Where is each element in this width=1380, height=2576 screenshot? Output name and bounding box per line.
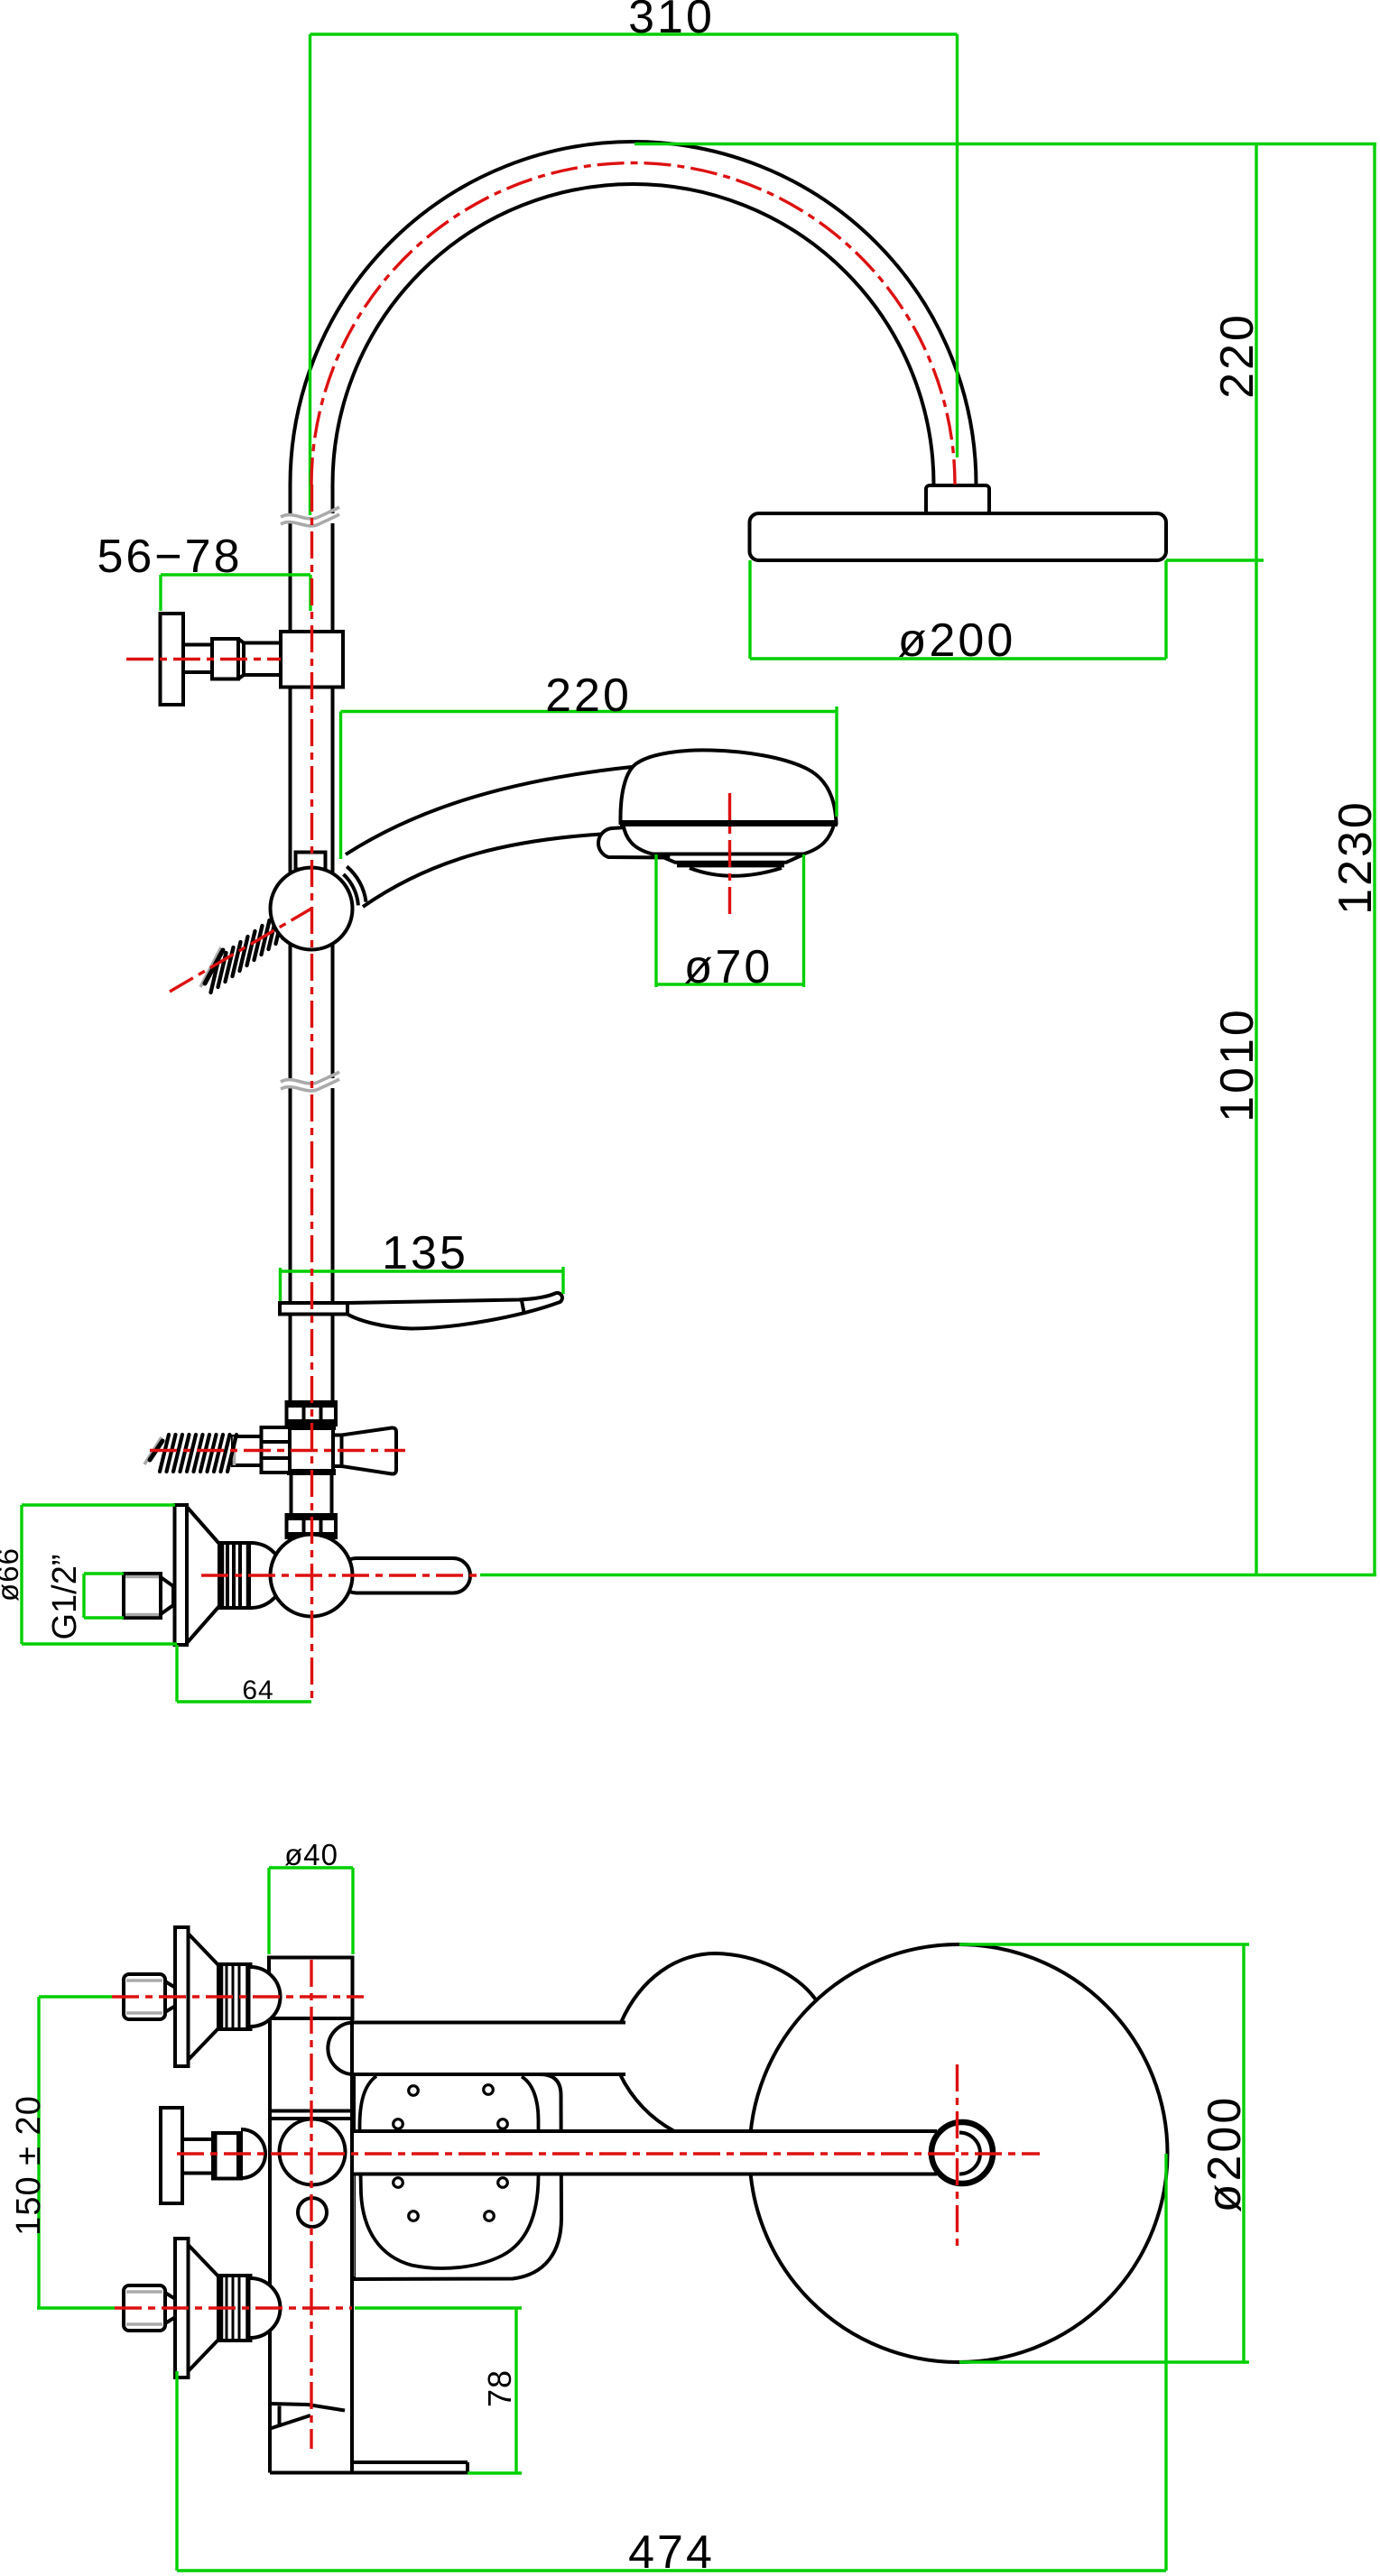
rain shower head disc (front) [750,513,1167,560]
diverter hex collar [262,1427,291,1473]
svg-text:G1/2”: G1/2” [46,1554,84,1639]
svg-text:310: 310 [628,0,715,43]
dim 220 handshower [341,706,838,859]
centerline: mixer axis [201,1574,480,1576]
handshower head flow tab [598,827,672,858]
svg-text:1230: 1230 [1329,799,1380,915]
centerline: plan column vertical [310,1960,312,2449]
dim 310 [310,34,958,515]
top reference line (arc top) [634,143,1376,145]
dim o40 plan [269,1868,353,1954]
centerline: wall bracket axis [126,658,281,660]
soap dish tray (front view) [347,1293,562,1329]
centerline: handshower head axis [728,793,731,917]
mixer ball body [271,1535,353,1617]
soap dish bracket (front view) [280,1303,347,1315]
plan: middle valve ball [280,2119,346,2185]
svg-text:474: 474 [628,2526,715,2576]
centerline: plan lower fitting [115,2306,352,2309]
plan: grey hidden edge at body [351,2174,355,2276]
plan: soap dish outer outline [354,2074,561,2279]
mixer wall escutcheon plate [175,1505,188,1645]
centerline: riser pipe vertical [310,485,313,1702]
pipe break symbol (upper wavy break) [281,507,339,526]
handshower grip (curved handle) [346,767,632,907]
centerline: gooseneck arc [311,162,955,485]
svg-text:135: 135 [382,1227,468,1279]
diverter handle stem and cone [333,1427,396,1473]
dim 1230 [1373,144,1375,1575]
svg-text:56−78: 56−78 [97,531,242,583]
plan: mixer spout bar [352,2462,468,2473]
plan: shower arm bar [352,2131,959,2174]
mixer dome [251,1543,283,1608]
dim 56-78 [161,575,310,611]
centerline: diverter axis [150,1449,405,1452]
hose break mark (grey) [200,947,223,987]
plan: rain head circle (d200) [750,1944,1168,2362]
dim 474 [177,2154,1166,2571]
plan: middle valve cross handle [161,2108,265,2203]
plan: wall bar column [269,1958,468,2473]
handshower ball joint [271,868,353,950]
mixer escutcheon cone [187,1507,219,1643]
dim o200 front [750,560,1166,659]
wall bracket flange plate (56-78 wall union) [161,614,184,705]
dim 220 vertical (head drop) [1166,144,1264,561]
plan: soap dish drain holes [394,2085,508,2221]
handshower holder clamp [296,853,326,870]
mixer threaded collar [219,1543,251,1608]
plan: arm end cap arc [959,2133,980,2174]
dim 150 +- 20 [37,1997,115,2308]
dim 78 plan [355,2308,522,2473]
plan: arm end hook circle [931,2122,993,2184]
pipe break symbol (lower wavy break) [281,1072,339,1091]
dim o70 [656,854,805,987]
svg-text:ø200: ø200 [898,614,1016,667]
riser pipe (vertical shower column) [291,485,333,1400]
mixer lever handle [339,1558,470,1593]
plan: lower wall union fitting [124,2239,281,2377]
handshower ferrule arcs [344,866,366,905]
plan: soap dish inner basin [360,2076,539,2268]
svg-text:ø70: ø70 [684,941,773,993]
diverter hose nipple [233,1436,262,1465]
handshower face rings [657,854,804,876]
diverter valve body [287,1426,336,1473]
dim o200 plan [959,1944,1249,2362]
svg-text:220: 220 [1211,312,1264,399]
diverter hose break mark [144,1437,162,1464]
svg-text:150 ± 20: 150 ± 20 [10,2095,48,2236]
bottom reference line (mixer axis) [480,1574,1376,1576]
svg-text:ø40: ø40 [284,1838,338,1871]
handshower head parting line [620,820,838,826]
plan: upper wall union fitting [124,1927,281,2066]
shower head top connector (front) [926,485,989,514]
centerline: plan head circle vertical [956,2064,959,2248]
svg-text:ø66: ø66 [0,1547,24,1602]
svg-text:78: 78 [481,2369,518,2407]
pipe slider block of wall bracket [281,632,343,688]
svg-text:64: 64 [242,1676,273,1705]
dim 135 [281,1267,564,1301]
centerline: handshower hose axis [170,909,311,992]
diverter upper union nut [285,1402,337,1425]
dim o66 [22,1505,177,1644]
centerline: plan upper fitting [112,1995,364,1998]
diverter lower union nut [285,1515,337,1537]
dim G1/2 [84,1574,124,1618]
svg-text:1010: 1010 [1211,1007,1264,1122]
dim 64 [177,1645,311,1702]
pipe segment below diverter body [292,1473,332,1515]
handshower head body [620,750,836,823]
gooseneck arc (curved shower arm tube) [291,142,977,485]
mixer G1/2 inlet nipple [124,1574,173,1618]
plan: handshower grip bar (stadium) [328,2023,625,2075]
centerline: plan middle valve axis [177,2152,1040,2155]
wall bracket chamfer neck [238,639,281,679]
diverter hose coil [160,1435,236,1472]
dim 1010 [1255,560,1257,1575]
svg-text:220: 220 [545,669,632,722]
plan: handshower head blob [620,1953,816,2131]
svg-text:ø200: ø200 [1199,2095,1251,2213]
handshower head lower shell [624,825,835,854]
wall bracket collar [212,639,238,679]
wall bracket arm [183,645,212,673]
handshower hose coil [211,904,292,993]
plan: small port circle [298,2198,327,2227]
